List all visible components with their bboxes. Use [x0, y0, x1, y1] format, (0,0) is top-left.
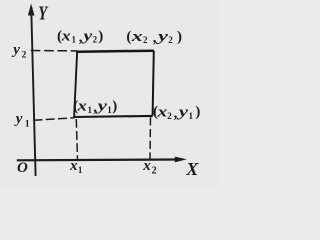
Y axis arrowhead: [28, 4, 35, 16]
X axis: [17, 158, 180, 161]
X axis arrowhead: [175, 157, 187, 163]
rectangle bottom edge: [74, 116, 153, 117]
rectangle right edge: [153, 51, 154, 116]
dashed line x1 from bottom edge down to x axis: [76, 119, 77, 160]
paper background: [0, 0, 220, 188]
dashed line y2 from axis to top-left corner: [31, 50, 78, 52]
svg-text:O: O: [17, 160, 28, 176]
svg-text:Y: Y: [38, 2, 48, 24]
dashed line x2 from bottom-right corner down to x axis: [149, 117, 152, 159]
Y axis: [31, 7, 35, 176]
dashed line y1 from axis to bottom-left corner: [33, 118, 74, 121]
rectangle left edge: [74, 51, 77, 117]
svg-text:X: X: [185, 159, 199, 179]
rectangle top edge: [77, 51, 154, 52]
